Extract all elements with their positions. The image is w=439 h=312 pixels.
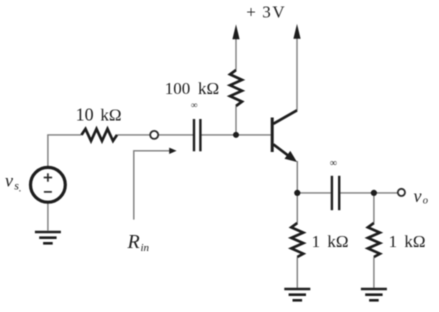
- svg-text:1 kΩ: 1 kΩ: [312, 232, 349, 251]
- svg-text:1 kΩ: 1 kΩ: [389, 232, 426, 251]
- svg-text:V: V: [272, 3, 285, 22]
- svg-text:s: s: [14, 178, 19, 192]
- svg-text:in: in: [141, 242, 150, 254]
- svg-text:∞: ∞: [191, 101, 198, 111]
- svg-text:kΩ: kΩ: [100, 106, 121, 125]
- svg-text:R: R: [127, 231, 140, 253]
- svg-text:v: v: [414, 186, 422, 206]
- svg-text:∞: ∞: [330, 158, 337, 169]
- svg-text:10: 10: [76, 105, 94, 125]
- svg-text:3: 3: [262, 3, 271, 22]
- svg-text:100 kΩ: 100 kΩ: [165, 79, 219, 98]
- svg-text:o: o: [423, 195, 428, 206]
- svg-text:+: +: [246, 3, 256, 22]
- svg-text:v: v: [5, 170, 13, 190]
